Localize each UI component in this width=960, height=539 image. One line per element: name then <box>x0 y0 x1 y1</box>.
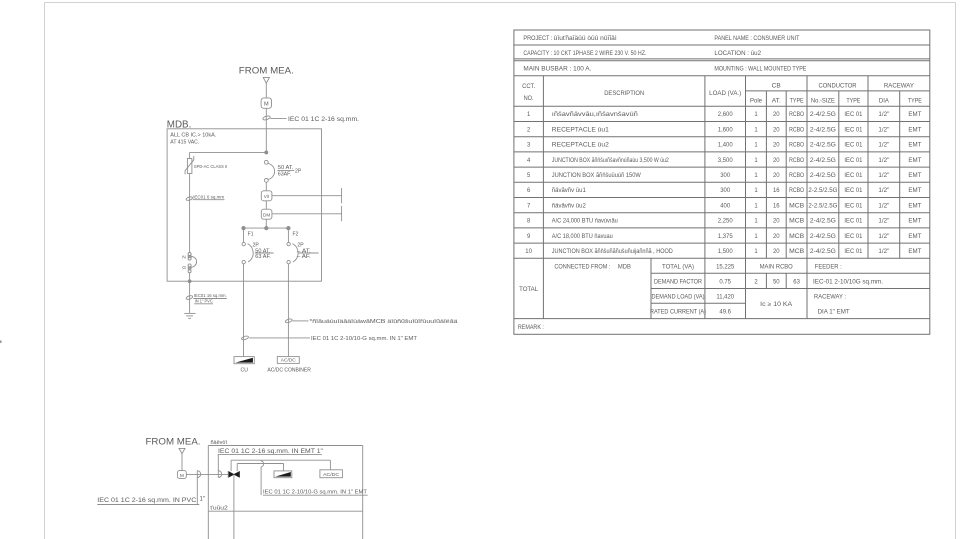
table vertical TOTAL label col <box>650 258 652 318</box>
svg-text:7: 7 <box>527 203 530 209</box>
conduit riser symbol 2 at wall <box>217 454 219 477</box>
svg-text:20: 20 <box>773 127 780 133</box>
wire triangle to meter <box>265 83 267 98</box>
svg-text:1/2": 1/2" <box>878 112 889 118</box>
svg-text:NO.: NO. <box>524 96 534 102</box>
svg-text:PANEL NAME : CONSUMER UNIT: PANEL NAME : CONSUMER UNIT <box>714 36 799 42</box>
svg-text:CB: CB <box>772 84 781 90</box>
table vertical CONDUCTOR/RACEWAY <box>867 76 869 259</box>
svg-text:AC/DC CONBINER: AC/DC CONBINER <box>267 368 311 374</box>
svg-text:IEC 01: IEC 01 <box>844 234 863 240</box>
svg-text:EMT: EMT <box>908 127 921 133</box>
svg-text:IEC 01: IEC 01 <box>844 158 863 164</box>
conduit riser symbol 1 <box>196 471 198 505</box>
svg-text:1/2": 1/2" <box>878 127 889 133</box>
svg-text:2-4/2.5G: 2-4/2.5G <box>810 143 836 149</box>
table line under column header <box>514 105 930 107</box>
wire SPD branch drop <box>189 152 191 158</box>
svg-text:Pole: Pole <box>750 99 763 105</box>
svg-text:DM: DM <box>263 212 270 217</box>
svg-text:1/2": 1/2" <box>878 188 889 194</box>
V/I terminal bar <box>341 188 343 203</box>
svg-text:RCBO: RCBO <box>789 188 804 194</box>
svg-text:RCBO: RCBO <box>789 173 804 179</box>
svg-text:– AF.: – AF. <box>297 254 311 260</box>
svg-text:No.-SIZE: No.-SIZE <box>811 99 835 105</box>
svg-text:IEC 01: IEC 01 <box>844 143 863 149</box>
svg-text:20: 20 <box>773 112 780 118</box>
main breaker arc <box>268 163 274 179</box>
neutral bus terminal N <box>188 253 191 256</box>
svg-text:3,500: 3,500 <box>718 158 734 164</box>
incoming supply triangle arrow <box>263 77 269 83</box>
svg-text:MAIN RCBO: MAIN RCBO <box>760 264 793 270</box>
node at MDB box bottom crossing <box>188 280 191 283</box>
svg-text:FROM MEA.: FROM MEA. <box>146 436 201 446</box>
svg-text:F1: F1 <box>248 232 254 238</box>
svg-text:1,600: 1,600 <box>718 127 734 133</box>
leader line F1 cable label <box>249 337 310 339</box>
leader line F2 note <box>293 320 309 322</box>
svg-text:DEMAND FACTOR: DEMAND FACTOR <box>654 279 703 285</box>
svg-text:IEC 01 1C 2-10/10-G sq.mm. IN: IEC 01 1C 2-10/10-G sq.mm. IN 1" EMT <box>263 490 368 496</box>
disconnect switch bowtie <box>228 471 234 478</box>
svg-text:16: 16 <box>773 203 780 209</box>
svg-text:CU: CU <box>241 368 249 374</box>
svg-text:1: 1 <box>754 203 758 209</box>
table total section lines <box>651 272 930 274</box>
main breaker 50AT/63AF 2P pole circles <box>264 160 268 164</box>
svg-text:20: 20 <box>773 158 780 164</box>
svg-text:RCBO: RCBO <box>789 143 804 149</box>
svg-text:EMT: EMT <box>908 188 921 194</box>
svg-text:M: M <box>264 102 269 108</box>
svg-text:MDB: MDB <box>618 264 631 270</box>
table vertical CB/CONDUCTOR <box>806 76 808 319</box>
sheet border frame top <box>45 2 956 4</box>
sheet edge tick mark <box>0 340 2 343</box>
cable marker ellipse on F1 feeder <box>241 335 249 340</box>
leader line service cable label <box>270 118 286 120</box>
kWh meter M <box>261 98 271 108</box>
junction node main bus <box>265 151 268 154</box>
house right wall <box>362 446 364 539</box>
svg-text:IEC 01: IEC 01 <box>844 203 863 209</box>
svg-text:IEC-01 2-10/10G sq.mm.: IEC-01 2-10/10G sq.mm. <box>813 279 883 285</box>
svg-text:ťuūu2: ťuūu2 <box>210 506 228 512</box>
svg-text:FROM MEA.: FROM MEA. <box>239 66 294 76</box>
svg-text:1: 1 <box>754 143 758 149</box>
conduit riser symbol 3 with hop <box>260 459 262 462</box>
svg-text:10: 10 <box>525 249 532 255</box>
svg-text:RACEWAY: RACEWAY <box>884 84 914 90</box>
table row separators <box>514 121 930 123</box>
svg-text:9: 9 <box>527 234 531 240</box>
breaker F1 pole circles <box>242 242 245 245</box>
svg-text:DIA 1" EMT: DIA 1" EMT <box>818 309 850 315</box>
svg-text:IEC 01: IEC 01 <box>844 219 863 225</box>
svg-text:EMT: EMT <box>908 234 921 240</box>
table vertical No-SIZE/TYPE <box>838 91 840 258</box>
svg-text:1/2": 1/2" <box>878 249 889 255</box>
svg-text:2: 2 <box>527 127 530 133</box>
svg-text:IEC 01: IEC 01 <box>844 249 863 255</box>
svg-text:IEC 01: IEC 01 <box>844 173 863 179</box>
svg-text:IEC01 16 sq.mm.: IEC01 16 sq.mm. <box>194 293 227 298</box>
svg-text:1/2": 1/2" <box>878 173 889 179</box>
svg-text:AT.: AT. <box>772 99 781 105</box>
wire main bus to SPD branch <box>190 151 267 153</box>
svg-text:1/2": 1/2" <box>878 143 889 149</box>
svg-text:A/C 18,000 BTU ňavuau: A/C 18,000 BTU ňavuau <box>552 234 613 240</box>
svg-text:Ic ≥ 10 KA: Ic ≥ 10 KA <box>760 302 792 308</box>
svg-text:49.6: 49.6 <box>719 309 731 315</box>
svg-text:EMT: EMT <box>908 203 921 209</box>
wire F1 drop <box>243 228 245 242</box>
svg-text:MOUNTING : WALL MOUNTED TYPE: MOUNTING : WALL MOUNTED TYPE <box>714 66 806 72</box>
svg-text:2-2.5/2.5G: 2-2.5/2.5G <box>808 188 837 194</box>
svg-text:ñävãvñv ūu1: ñävãvñv ūu1 <box>552 188 587 194</box>
svg-text:IEC01 6 sq.mm: IEC01 6 sq.mm <box>193 194 224 199</box>
table line under MAIN BUSBAR row <box>514 75 930 77</box>
wire outer loop drop to AC/DC <box>329 460 331 470</box>
svg-text:LOCATION : ūu2: LOCATION : ūu2 <box>714 50 761 57</box>
svg-text:2P: 2P <box>295 168 302 174</box>
svg-text:AC/DC: AC/DC <box>323 472 340 478</box>
breaker F2 arc <box>293 244 299 262</box>
svg-text:G: G <box>182 265 186 271</box>
AC/DC combiner box (riser) <box>320 470 343 478</box>
CU consumer unit symbol <box>234 357 254 364</box>
svg-text:2: 2 <box>754 279 757 285</box>
SPD surge protector body <box>187 159 192 174</box>
svg-text:1: 1 <box>754 158 758 164</box>
svg-text:DEMAND LOAD (VA): DEMAND LOAD (VA) <box>652 294 705 300</box>
svg-text:1: 1 <box>754 173 758 179</box>
svg-text:N: N <box>182 254 186 260</box>
table line under group header <box>746 90 930 92</box>
wire triangle to meter (riser) <box>181 454 183 471</box>
node bus center <box>265 226 268 229</box>
floor line level 2 <box>208 510 362 512</box>
svg-text:16: 16 <box>773 188 780 194</box>
table vertical DESCRIPTION/LOAD <box>704 76 706 319</box>
svg-text:300: 300 <box>720 173 731 179</box>
svg-text:20: 20 <box>773 219 780 225</box>
svg-text:20: 20 <box>773 234 780 240</box>
svg-text:TYPE: TYPE <box>846 99 860 105</box>
wire F2 to AC/DC combiner <box>287 264 289 357</box>
svg-text:1: 1 <box>754 112 758 118</box>
svg-text:TOTAL: TOTAL <box>519 287 539 293</box>
svg-text:1/2": 1/2" <box>878 158 889 164</box>
svg-text:JUNCTION BOX ãñňšuūuúñ 150W: JUNCTION BOX ãñňšuūuúñ 150W <box>552 173 641 179</box>
svg-text:2-4/2.5G: 2-4/2.5G <box>810 112 836 118</box>
svg-text:A/C 24,000 BTU ňavúvıãu: A/C 24,000 BTU ňavúvıãu <box>552 219 618 225</box>
SPD varistor stroke <box>185 156 194 175</box>
svg-text:2-4/2.5G: 2-4/2.5G <box>810 127 836 133</box>
load schedule table outer border <box>514 30 930 334</box>
wire F2 drop <box>287 228 289 242</box>
wire SPD to N bus <box>189 173 191 252</box>
table vertical DIA/TYPE <box>899 91 901 258</box>
DM sense line to panel terminal <box>272 213 342 215</box>
svg-text:EMT: EMT <box>908 158 921 164</box>
sheet border frame right <box>955 3 957 539</box>
svg-text:1: 1 <box>754 188 758 194</box>
svg-text:CCT.: CCT. <box>522 84 535 90</box>
svg-text:JUNCTION BOX ãñňšuñãñušuñuĳañn: JUNCTION BOX ãñňšuñãñušuñuĳañnñã , HOOD <box>552 249 673 255</box>
ground electrode symbol <box>184 312 195 314</box>
svg-text:TOTAL (VA): TOTAL (VA) <box>662 264 694 270</box>
svg-text:AC/DC: AC/DC <box>281 358 297 363</box>
svg-text:1: 1 <box>527 112 531 118</box>
svg-text:SPD-AC CLASS II: SPD-AC CLASS II <box>194 164 227 169</box>
V/I meter box <box>261 191 272 201</box>
svg-text:MCB: MCB <box>789 234 804 240</box>
wire outer loop horizontal <box>231 459 330 461</box>
svg-text:1/2": 1/2" <box>878 234 889 240</box>
svg-text:15,225: 15,225 <box>716 264 735 270</box>
svg-text:2-2.5/2.5G: 2-2.5/2.5G <box>808 203 837 209</box>
svg-text:63 AF.: 63 AF. <box>255 254 270 260</box>
svg-text:IEC 01: IEC 01 <box>844 188 863 194</box>
svg-text:MCB: MCB <box>789 219 804 225</box>
svg-text:300: 300 <box>720 188 731 194</box>
svg-text:3: 3 <box>527 143 531 149</box>
table line under PROJECT row <box>514 44 930 46</box>
svg-text:RATED CURRENT (A): RATED CURRENT (A) <box>650 309 706 315</box>
svg-text:11,420: 11,420 <box>716 294 734 300</box>
wire breaker to V/I meter <box>265 182 267 191</box>
svg-text:8: 8 <box>527 219 531 225</box>
svg-text:CONDUCTOR: CONDUCTOR <box>819 84 858 90</box>
breaker F1 arc <box>248 244 254 262</box>
DM terminal bar <box>341 206 343 221</box>
svg-text:2,600: 2,600 <box>718 112 734 118</box>
wire meter to house <box>186 473 228 475</box>
svg-text:20: 20 <box>773 173 780 179</box>
DM digital meter box <box>261 209 272 219</box>
svg-text:20: 20 <box>773 143 780 149</box>
MDB enclosure box <box>167 129 321 281</box>
svg-text:RACEWAY :: RACEWAY : <box>814 294 846 300</box>
svg-text:2-4/2.5G: 2-4/2.5G <box>810 173 836 179</box>
wire DM to feeder bus <box>265 219 267 228</box>
svg-text:IEC 01: IEC 01 <box>844 112 863 118</box>
svg-text:1,375: 1,375 <box>718 234 734 240</box>
svg-text:63AF.: 63AF. <box>278 172 292 178</box>
svg-text:2-4/2.5G: 2-4/2.5G <box>810 219 836 225</box>
table vertical LOAD/CB <box>745 76 747 319</box>
svg-text:1/2": 1/2" <box>878 203 889 209</box>
svg-text:1,500: 1,500 <box>718 249 734 255</box>
wire bowtie down to lower floor <box>233 474 235 539</box>
svg-text:50: 50 <box>773 279 780 285</box>
svg-text:ñäěvòī: ñäěvòī <box>211 440 228 446</box>
V/I sense line to panel terminal <box>272 195 342 197</box>
ground bus terminal G <box>188 264 191 267</box>
node bus left <box>242 226 245 229</box>
svg-text:RECEPTACLE ūu1: RECEPTACLE ūu1 <box>552 127 610 133</box>
svg-text:2,250: 2,250 <box>718 219 734 225</box>
svg-text:FEEDER :: FEEDER : <box>815 264 842 270</box>
svg-text:IEC 01 1C 2-10/10-G sq.mm. IN: IEC 01 1C 2-10/10-G sq.mm. IN 1" EMT <box>311 336 418 342</box>
svg-text:DESCRIPTION: DESCRIPTION <box>604 91 644 97</box>
svg-text:ALL CB IC.> 10kA.: ALL CB IC.> 10kA. <box>170 132 216 138</box>
svg-text:6: 6 <box>527 188 531 194</box>
table vertical AT/TYPE <box>785 91 787 258</box>
svg-text:V/I: V/I <box>264 194 270 199</box>
svg-text:EMT: EMT <box>908 249 921 255</box>
svg-text:M: M <box>180 473 184 479</box>
svg-text:2-4/2.5G: 2-4/2.5G <box>810 249 836 255</box>
svg-text:DIA: DIA <box>879 99 889 105</box>
svg-text:MCB: MCB <box>789 249 804 255</box>
svg-text:1: 1 <box>754 249 758 255</box>
house left wall <box>207 446 209 539</box>
svg-text:4: 4 <box>527 158 531 164</box>
svg-text:TYPE: TYPE <box>790 99 804 105</box>
svg-text:TYPE: TYPE <box>908 99 922 105</box>
wire inner loop vertical <box>236 464 238 472</box>
svg-text:REMARK :: REMARK : <box>518 325 544 331</box>
house roof line <box>208 445 362 447</box>
wire inner loop horizontal <box>237 463 283 465</box>
svg-text:5: 5 <box>527 173 531 179</box>
feeder bus horizontal <box>244 227 289 229</box>
svg-text:63: 63 <box>793 279 800 285</box>
svg-text:EMT: EMT <box>908 143 921 149</box>
svg-text:RECEPTACLE ūu2: RECEPTACLE ūu2 <box>552 143 609 149</box>
svg-text:IEC 01 1C 2-16 sq.mm. IN PVC: IEC 01 1C 2-16 sq.mm. IN PVC <box>97 497 197 504</box>
svg-text:CONNECTED FROM :: CONNECTED FROM : <box>554 264 610 270</box>
svg-text:1: 1 <box>754 234 758 240</box>
table vertical Pole/AT <box>765 91 767 258</box>
svg-text:PROJECT :: PROJECT : <box>523 36 552 42</box>
svg-text:IEC 01 1C 2-16 sq.mm.: IEC 01 1C 2-16 sq.mm. <box>288 116 359 123</box>
svg-text:RCBO: RCBO <box>789 158 804 164</box>
svg-text:1: 1 <box>754 127 758 133</box>
svg-text:1/2": 1/2" <box>878 219 889 225</box>
svg-text:2-4/2.5G: 2-4/2.5G <box>810 158 836 164</box>
N-G bonding jumper arc <box>191 256 196 267</box>
cable marker ellipse grounding conductor <box>186 295 193 300</box>
svg-text:LOAD (VA.): LOAD (VA.) <box>709 91 741 97</box>
breaker F2 pole circles <box>287 242 290 245</box>
wire V/I to DM <box>265 201 267 209</box>
svg-text:CAPACITY : 10 CKT 1PHASE 2 WIR: CAPACITY : 10 CKT 1PHASE 2 WIRE 230 V. 5… <box>523 51 646 57</box>
svg-text:EMT: EMT <box>908 112 921 118</box>
cable marker ellipse on F2 feeder <box>285 318 293 323</box>
svg-text:*ñīăuäúuīäăäīüäwăMCB äīûñűŝuīû: *ñīăuäúuīäăäīüäwăMCB äīûñűŝuīûīřūuuīũäīë… <box>310 319 458 325</box>
wire F1 to CU <box>243 264 245 357</box>
wire inner loop drop to CU <box>283 464 285 471</box>
svg-text:IN 1" PVC: IN 1" PVC <box>195 299 214 304</box>
cable marker ellipse (service cable) <box>262 115 270 121</box>
svg-text:ıñšavñävvāu,ıñšavnšavúñ: ıñšavñävvāu,ıñšavnšavúñ <box>552 112 638 118</box>
svg-text:1": 1" <box>200 496 206 503</box>
svg-text:MCB: MCB <box>789 203 804 209</box>
svg-text:MAIN BUSBAR : 100 A.: MAIN BUSBAR : 100 A. <box>523 66 591 72</box>
svg-text:2-4/2.5G: 2-4/2.5G <box>810 234 836 240</box>
wire bowtie up left loop <box>230 460 232 471</box>
AC/DC combiner box <box>277 357 299 364</box>
svg-text:JUNCTION BOX ãñňšuıñšavñnúñaùu: JUNCTION BOX ãñňšuıñšavñnúñaùu 3,500 W ū… <box>552 158 669 164</box>
svg-text:EMT: EMT <box>908 219 921 225</box>
svg-text:AT 415 VAC.: AT 415 VAC. <box>170 139 199 145</box>
sheet border frame left <box>44 3 46 539</box>
wire G to ground electrode <box>189 273 191 313</box>
svg-text:20: 20 <box>773 249 780 255</box>
cable marker ellipse SPD earth conductor <box>186 196 193 201</box>
node bus right <box>287 226 290 229</box>
svg-text:IEC 01: IEC 01 <box>844 127 863 133</box>
svg-text:F2: F2 <box>293 232 299 238</box>
svg-text:400: 400 <box>720 203 731 209</box>
svg-text:EMT: EMT <box>908 173 921 179</box>
kWh meter M (riser) <box>177 471 186 479</box>
svg-text:RCBO: RCBO <box>789 127 804 133</box>
svg-text:RCBO: RCBO <box>789 112 804 118</box>
table vertical CCT <box>542 76 544 319</box>
svg-text:ûīuťñaīäûü òūû nûīĩäì: ûīuťñaīäûü òūû nûīĩäì <box>554 36 617 42</box>
CU consumer unit symbol (riser) <box>274 471 292 478</box>
table line under CAPACITY row (double) <box>514 58 930 60</box>
svg-text:1: 1 <box>754 219 758 225</box>
svg-text:1,400: 1,400 <box>718 143 734 149</box>
svg-text:IEC 01 1C 2-16 sq.mm. IN EMT 1: IEC 01 1C 2-16 sq.mm. IN EMT 1" <box>218 448 323 455</box>
svg-text:ñävãvñv ūu2: ñävãvñv ūu2 <box>552 203 586 209</box>
incoming triangle (riser) <box>179 448 185 453</box>
svg-text:0.75: 0.75 <box>719 279 731 285</box>
wire meter to MDB <box>265 108 267 152</box>
